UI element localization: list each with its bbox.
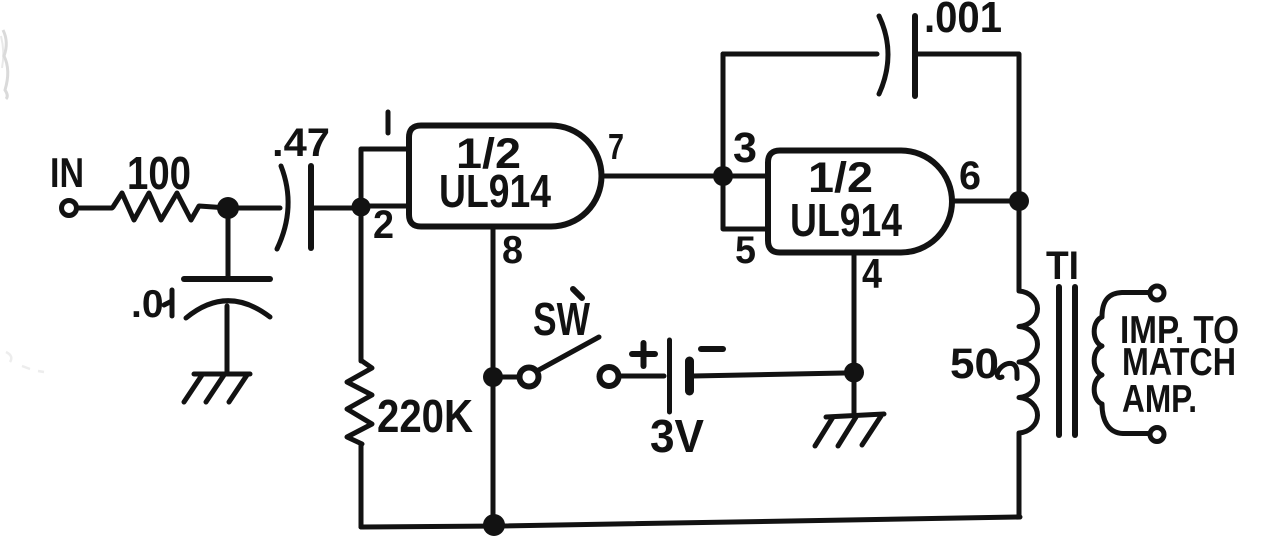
capacitor C1 .01 [184, 215, 270, 372]
svg-text:7: 7 [608, 126, 624, 167]
wire pin 5 [723, 186, 768, 229]
capacitor C3 .001 [879, 16, 915, 96]
wire [618, 374, 664, 379]
svg-text:TI: TI [1046, 244, 1079, 288]
wire pin 8 [491, 227, 496, 521]
svg-text:.0: .0 [131, 283, 164, 326]
wire pin 7 [601, 174, 713, 179]
svg-text:6: 6 [959, 154, 981, 198]
label pin 1 [386, 112, 391, 133]
transformer T1 secondary winding [1094, 293, 1150, 434]
svg-text:4: 4 [862, 250, 883, 297]
svg-text:3: 3 [733, 124, 757, 172]
wire [313, 206, 353, 211]
svg-text:50: 50 [950, 340, 999, 388]
label 50 ohm [950, 340, 1017, 388]
wire pin 4 [852, 253, 857, 367]
svg-text:.47: .47 [272, 121, 330, 165]
svg-text:2: 2 [373, 203, 394, 247]
wire [693, 373, 844, 376]
label .01 [131, 283, 172, 326]
switch SW [520, 337, 619, 387]
svg-text:.001: .001 [924, 0, 1002, 42]
resistor R2 220K [347, 207, 372, 527]
wire [77, 206, 112, 211]
transformer T1 core [1059, 287, 1075, 435]
transformer T1 primary winding [1019, 211, 1038, 517]
node switch junction [483, 367, 503, 387]
wire feedback up [721, 54, 726, 166]
node D junction [1009, 191, 1029, 211]
label IMP. TO MATCH AMP. [1120, 309, 1239, 421]
wire [228, 206, 280, 211]
svg-text:AMP.: AMP. [1122, 378, 1197, 421]
ground (right) [815, 414, 884, 446]
wire pin 2 [361, 204, 409, 209]
svg-text:5: 5 [735, 229, 756, 272]
node B junction [352, 198, 371, 217]
wire [917, 54, 1019, 196]
wire pin 1 [361, 149, 409, 207]
node A junction [217, 197, 239, 219]
node C junction [713, 166, 733, 186]
wire top rail [723, 52, 877, 57]
svg-text:UL914: UL914 [790, 194, 902, 246]
input terminal IN [62, 201, 77, 216]
resistor R1 100 [113, 193, 228, 220]
wire pin 3 [723, 174, 768, 179]
svg-text:8: 8 [502, 229, 523, 272]
node E junction [844, 363, 864, 383]
battery B1 3V [632, 340, 723, 412]
svg-text:100: 100 [127, 147, 191, 199]
node F junction (bottom) [483, 514, 505, 536]
NAND gate U2 [768, 151, 952, 253]
wire [852, 372, 857, 413]
NAND gate U1 [409, 126, 602, 227]
wire pin 6 [952, 199, 1009, 204]
svg-text:3V: 3V [650, 410, 704, 462]
capacitor C2 .47 [277, 166, 311, 249]
wire [493, 375, 520, 380]
svg-text:IN: IN [50, 149, 84, 196]
secondary terminal (bottom) [1150, 428, 1164, 442]
wire bottom rail [361, 517, 1020, 527]
secondary terminal (top) [1150, 286, 1164, 300]
scan smudge [1, 30, 44, 372]
svg-text:UL914: UL914 [439, 165, 551, 217]
svg-text:220K: 220K [377, 390, 473, 442]
ground (left) [184, 374, 250, 402]
label SW [533, 289, 590, 345]
